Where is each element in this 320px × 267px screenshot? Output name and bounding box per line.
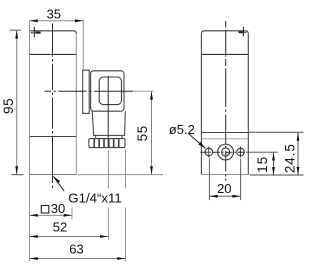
extension line connector axis <box>107 151 109 240</box>
dimension 63 <box>30 242 126 260</box>
cable gland collar <box>96 135 122 138</box>
dimension 24.5 <box>282 133 299 176</box>
flange top reference line <box>248 131 303 133</box>
svg-text:63: 63 <box>69 242 83 257</box>
dimension 95 <box>1 30 23 175</box>
dimension 15 <box>255 152 275 175</box>
dimension 55 <box>78 91 163 175</box>
mounting hole right <box>237 147 245 158</box>
side view vent mark <box>239 27 247 36</box>
svg-text:15: 15 <box>255 155 270 172</box>
dimension 35 <box>30 7 84 70</box>
connector mounting plate <box>83 70 90 113</box>
connector block <box>91 71 124 111</box>
connector face square <box>99 77 121 105</box>
front view body sides and bottom <box>30 31 77 175</box>
side view flange chamfer line <box>201 138 248 140</box>
connector vertical centerline <box>107 76 109 148</box>
svg-text:30: 30 <box>51 201 65 216</box>
center hole <box>218 144 234 160</box>
svg-text:35: 35 <box>47 7 61 22</box>
side view cover seam line <box>201 53 248 55</box>
front view square-section line <box>30 136 77 138</box>
front view body top edge <box>30 31 77 34</box>
svg-text:ø5.2: ø5.2 <box>169 122 195 137</box>
cable gland nut <box>89 139 125 148</box>
connector horizontal centerline <box>45 90 154 92</box>
connector neck <box>92 111 125 135</box>
svg-text:95: 95 <box>1 98 16 114</box>
extension line gland right <box>125 150 127 262</box>
G1/4 thread leader <box>53 176 121 205</box>
side view vertical centerline <box>225 21 227 181</box>
front view vent mark <box>31 27 41 38</box>
dimension 20 <box>209 159 240 201</box>
svg-text:G1/4“x11: G1/4“x11 <box>68 190 122 205</box>
front view cover seam line <box>30 53 77 55</box>
mounting hole left <box>205 147 213 158</box>
dimension 52 <box>30 220 109 238</box>
svg-text:52: 52 <box>53 220 67 235</box>
side view body <box>201 31 248 175</box>
side view flange top line <box>201 132 248 134</box>
front view vertical centerline <box>52 24 54 189</box>
svg-text:55: 55 <box>135 125 150 141</box>
hole diameter label <box>169 122 206 148</box>
svg-text:24.5: 24.5 <box>282 143 297 173</box>
svg-text:20: 20 <box>217 181 231 196</box>
dimension 30 <box>30 208 73 220</box>
holes centerline <box>201 151 278 153</box>
flange bottom reference line <box>250 174 304 176</box>
square 30 label <box>41 201 65 216</box>
extension line body left <box>29 175 31 262</box>
